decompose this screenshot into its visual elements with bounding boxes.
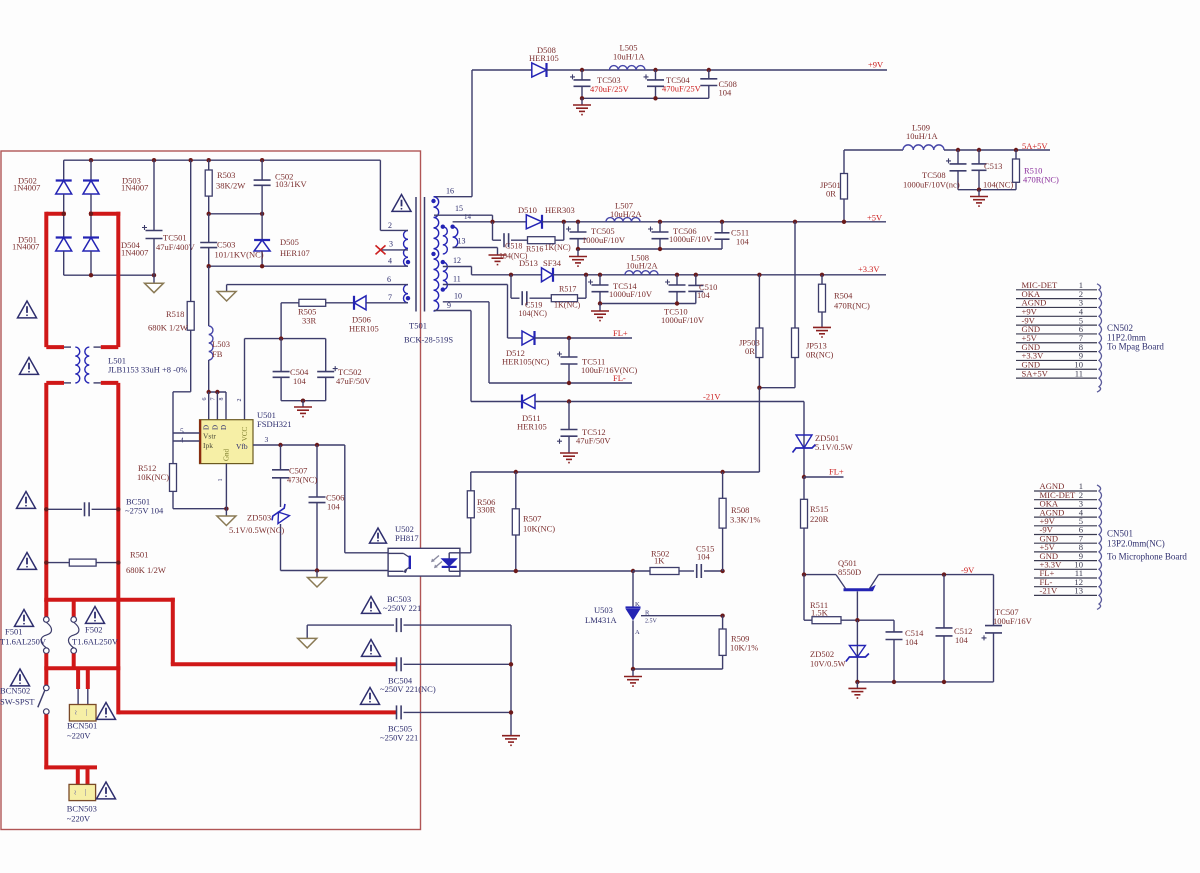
svg-text:D: D (203, 425, 211, 430)
svg-text:47uF/50V: 47uF/50V (336, 376, 371, 386)
svg-text:~250V 221(NC): ~250V 221(NC) (380, 684, 436, 694)
svg-text:16: 16 (446, 187, 454, 196)
svg-text:1000uF/10V: 1000uF/10V (609, 289, 653, 299)
svg-text:HER105(NC): HER105(NC) (502, 357, 549, 367)
svg-text:470uF/25V: 470uF/25V (590, 84, 630, 94)
svg-text:1000uF/10V: 1000uF/10V (669, 234, 713, 244)
svg-text:11: 11 (453, 275, 461, 284)
svg-text:10K(NC): 10K(NC) (137, 472, 169, 482)
svg-text:4: 4 (388, 257, 392, 266)
svg-text:10V/0.5W: 10V/0.5W (810, 659, 846, 669)
svg-text:7: 7 (211, 398, 217, 401)
svg-text:6: 6 (387, 275, 391, 284)
svg-text:L503: L503 (212, 339, 230, 349)
svg-text:1N4007: 1N4007 (121, 183, 148, 193)
svg-text:5.1V/0.5W(NC): 5.1V/0.5W(NC) (229, 525, 284, 535)
svg-text:2: 2 (388, 221, 392, 230)
svg-text:SF34: SF34 (543, 258, 562, 268)
svg-text:HER105: HER105 (517, 422, 547, 432)
svg-text:~220V: ~220V (67, 814, 91, 824)
svg-text:-21V: -21V (1040, 586, 1058, 596)
svg-text:BCN503: BCN503 (67, 804, 97, 814)
svg-text:104(NC): 104(NC) (519, 309, 548, 318)
svg-text:1.5K: 1.5K (811, 608, 829, 618)
svg-text:D: D (220, 425, 228, 430)
svg-text:CN502: CN502 (1107, 323, 1133, 333)
svg-text:To Mpag Board: To Mpag Board (1107, 342, 1164, 352)
svg-text:1N4007: 1N4007 (13, 183, 40, 193)
svg-text:FL+: FL+ (613, 328, 628, 338)
svg-text:Vfb: Vfb (236, 442, 248, 451)
svg-text:0R(NC): 0R(NC) (806, 350, 834, 360)
svg-text:BCN502: BCN502 (0, 686, 30, 696)
svg-text:SA+5V: SA+5V (1022, 368, 1049, 378)
svg-text:10K(NC): 10K(NC) (523, 524, 555, 534)
svg-text:3: 3 (389, 240, 393, 249)
svg-text:BCN501: BCN501 (67, 721, 97, 731)
svg-text:TC501: TC501 (163, 233, 187, 243)
svg-text:1000uF/10V(nc): 1000uF/10V(nc) (903, 180, 960, 190)
svg-text:—: — (82, 708, 90, 717)
svg-text:13: 13 (1074, 586, 1083, 596)
svg-text:D510: D510 (518, 205, 537, 215)
svg-text:104: 104 (719, 88, 733, 98)
svg-text:TC508: TC508 (922, 170, 946, 180)
svg-text:13: 13 (458, 237, 466, 246)
svg-text:VCC: VCC (241, 426, 249, 441)
svg-text:Gnd: Gnd (223, 448, 231, 461)
svg-text:104: 104 (955, 635, 969, 645)
svg-text:0R: 0R (745, 346, 755, 356)
svg-text:K: K (635, 601, 640, 608)
svg-text:C513: C513 (984, 161, 1002, 171)
svg-text:D505: D505 (280, 237, 299, 247)
svg-text:~: ~ (72, 710, 81, 715)
svg-text:T1.6AL250V: T1.6AL250V (72, 637, 119, 647)
svg-text:R: R (645, 610, 650, 617)
svg-text:1K: 1K (654, 556, 665, 566)
svg-text:1K(NC): 1K(NC) (554, 301, 581, 310)
svg-text:U503: U503 (594, 605, 613, 615)
svg-text:R517: R517 (559, 285, 576, 294)
svg-text:CN501: CN501 (1107, 529, 1133, 539)
svg-text:14: 14 (464, 213, 472, 221)
svg-text:220R: 220R (810, 514, 829, 524)
svg-text:PH817: PH817 (395, 533, 419, 543)
svg-text:LM431A: LM431A (585, 615, 618, 625)
svg-text:1000uF/10V: 1000uF/10V (661, 315, 705, 325)
svg-text:10uH/2A: 10uH/2A (626, 261, 659, 271)
svg-text:-21V: -21V (703, 392, 721, 402)
svg-text:FB: FB (212, 349, 223, 359)
svg-text:330R: 330R (477, 505, 496, 515)
svg-text:Vstr: Vstr (203, 432, 216, 441)
svg-text:1000uF/10V: 1000uF/10V (582, 235, 626, 245)
svg-text:1: 1 (218, 479, 224, 482)
svg-text:F502: F502 (85, 625, 102, 635)
svg-text:+5V: +5V (867, 213, 883, 223)
svg-text:~250V 221: ~250V 221 (383, 603, 421, 613)
svg-text:R501: R501 (130, 550, 148, 560)
svg-text:+9V: +9V (868, 60, 884, 70)
svg-text:5A+5V: 5A+5V (1022, 141, 1048, 151)
svg-text:1K(NC): 1K(NC) (545, 243, 572, 252)
svg-text:HER107: HER107 (280, 248, 310, 258)
svg-text:47uF/400V: 47uF/400V (156, 242, 196, 252)
svg-text:To Microphone Board: To Microphone Board (1107, 552, 1187, 562)
svg-text:38K/2W: 38K/2W (216, 181, 245, 191)
svg-text:10K/1%: 10K/1% (730, 643, 758, 653)
svg-text:SW-SPST: SW-SPST (0, 697, 35, 707)
svg-text:ZD502: ZD502 (810, 649, 834, 659)
svg-text:R507: R507 (523, 514, 541, 524)
svg-text:—: — (82, 788, 90, 797)
svg-text:R503: R503 (217, 170, 235, 180)
svg-text:5: 5 (180, 427, 184, 436)
svg-text:2.5V: 2.5V (645, 619, 658, 625)
svg-text:R504: R504 (834, 291, 853, 301)
svg-text:47uF/50V: 47uF/50V (576, 436, 611, 446)
svg-text:~: ~ (71, 790, 80, 795)
svg-text:F501: F501 (5, 627, 22, 637)
svg-text:C518: C518 (505, 242, 522, 251)
svg-text:R508: R508 (731, 505, 749, 515)
svg-text:104: 104 (697, 552, 711, 562)
svg-text:~275V 104: ~275V 104 (125, 506, 164, 516)
svg-text:HER105: HER105 (529, 53, 559, 63)
svg-text:680K 1/2W: 680K 1/2W (126, 565, 166, 575)
svg-text:473(NC): 473(NC) (287, 475, 317, 485)
svg-text:+3.3V: +3.3V (858, 264, 880, 274)
svg-text:T501: T501 (409, 321, 427, 331)
svg-text:R518: R518 (166, 309, 184, 319)
svg-text:104: 104 (293, 376, 307, 386)
svg-text:101/1KV(NC): 101/1KV(NC) (215, 250, 264, 260)
svg-text:HER105: HER105 (349, 324, 379, 334)
svg-text:R516: R516 (526, 245, 543, 254)
svg-text:680K 1/2W: 680K 1/2W (148, 323, 188, 333)
svg-text:104: 104 (905, 637, 919, 647)
svg-text:100uF/16V(NC): 100uF/16V(NC) (581, 365, 637, 375)
svg-text:Ipk: Ipk (203, 441, 213, 450)
svg-text:10uH/2A: 10uH/2A (610, 209, 643, 219)
svg-text:FL-: FL- (613, 373, 626, 383)
svg-text:ZD503: ZD503 (247, 513, 271, 523)
svg-text:470R(NC): 470R(NC) (1023, 175, 1059, 185)
svg-text:1N4007: 1N4007 (121, 248, 148, 258)
svg-text:103/1KV: 103/1KV (275, 179, 308, 189)
svg-text:100uF/16V: 100uF/16V (993, 616, 1033, 626)
svg-text:470R(NC): 470R(NC) (834, 301, 870, 311)
svg-text:3.3K/1%: 3.3K/1% (730, 515, 760, 525)
svg-text:104: 104 (736, 237, 750, 247)
svg-text:A: A (635, 629, 640, 636)
svg-text:1N4007: 1N4007 (12, 242, 39, 252)
svg-text:11: 11 (1075, 368, 1083, 378)
svg-text:12: 12 (453, 256, 461, 265)
svg-text:104: 104 (327, 502, 341, 512)
svg-text:HER303: HER303 (545, 205, 575, 215)
svg-text:3: 3 (265, 435, 269, 444)
svg-text:13P2.0mm(NC): 13P2.0mm(NC) (1107, 539, 1165, 549)
svg-text:6: 6 (202, 398, 208, 401)
svg-text:D513: D513 (519, 258, 538, 268)
svg-text:104: 104 (697, 290, 711, 300)
svg-text:8: 8 (219, 398, 225, 401)
svg-text:R515: R515 (810, 504, 828, 514)
svg-text:~220V: ~220V (67, 731, 91, 741)
svg-text:33R: 33R (302, 316, 317, 326)
svg-text:5.1V/0.5W: 5.1V/0.5W (815, 442, 853, 452)
svg-text:10uH/1A: 10uH/1A (613, 52, 646, 62)
svg-text:FSDH321: FSDH321 (257, 419, 291, 429)
svg-text:-9V: -9V (961, 565, 975, 575)
svg-text:T1.6AL250V: T1.6AL250V (0, 637, 47, 647)
svg-text:15: 15 (455, 204, 463, 213)
svg-text:470uF/25V: 470uF/25V (662, 84, 702, 94)
svg-text:104(NC): 104(NC) (983, 180, 1013, 190)
svg-text:BCK-28-519S: BCK-28-519S (404, 335, 453, 345)
svg-text:0R: 0R (826, 189, 836, 199)
svg-text:~250V 221: ~250V 221 (380, 733, 418, 743)
svg-text:2: 2 (237, 399, 243, 402)
svg-text:10uH/1A: 10uH/1A (906, 131, 939, 141)
svg-text:8550D: 8550D (838, 567, 861, 577)
svg-text:7: 7 (388, 293, 392, 302)
svg-text:D: D (211, 425, 219, 430)
svg-text:10: 10 (454, 292, 462, 301)
svg-text:JLB1153 33uH +8 -0%: JLB1153 33uH +8 -0% (108, 365, 187, 375)
svg-text:4: 4 (180, 436, 184, 445)
svg-text:C503: C503 (217, 240, 235, 250)
svg-text:FL+: FL+ (829, 467, 844, 477)
